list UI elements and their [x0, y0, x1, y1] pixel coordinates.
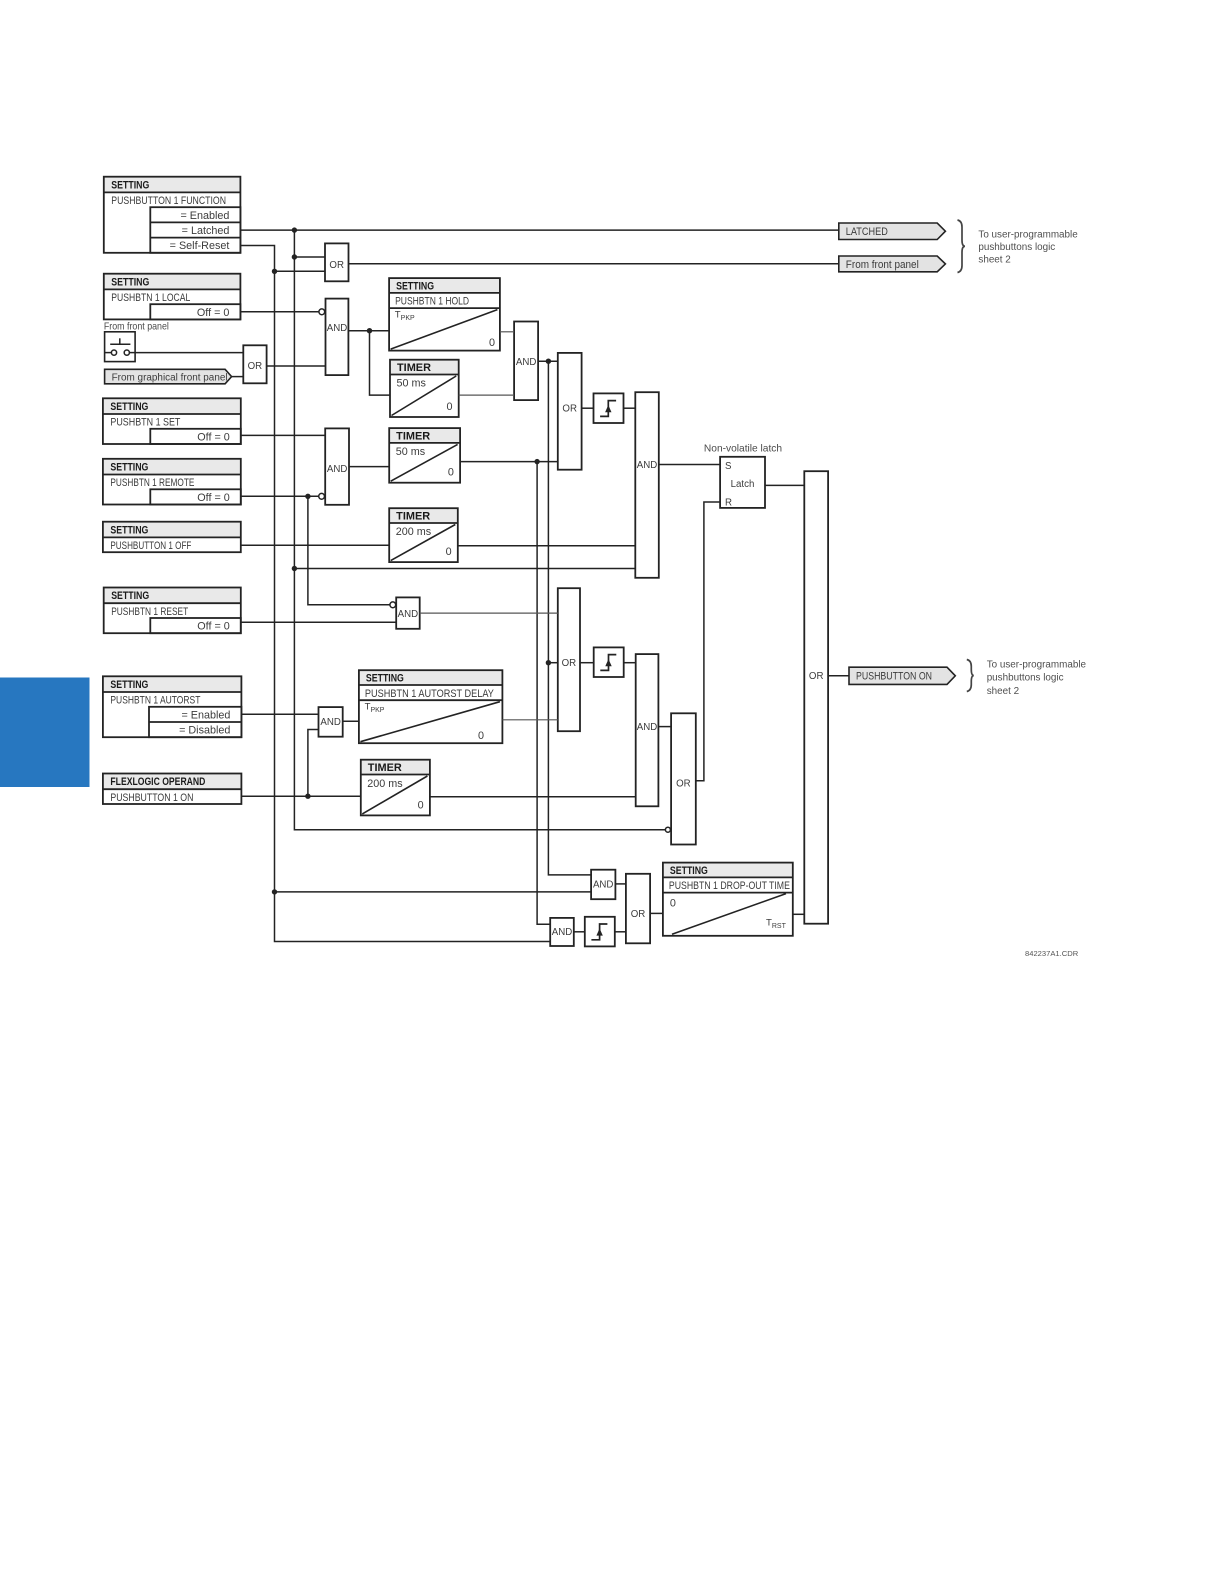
rising-edge detector ED3	[585, 917, 615, 947]
svg-text:50 ms: 50 ms	[396, 446, 426, 458]
svg-text:PUSHBUTTON 1 ON: PUSHBUTTON 1 ON	[110, 792, 193, 804]
svg-text:= Enabled: = Enabled	[180, 210, 229, 222]
svg-text:LATCHED: LATCHED	[846, 226, 888, 238]
timer 200 ms #1	[389, 508, 458, 562]
pushbutton contact symbol (front panel)	[104, 322, 169, 362]
svg-text:PUSHBTN 1 RESET: PUSHBTN 1 RESET	[111, 606, 188, 618]
wire: AND1 output to HOLD timer and 50ms timer	[348, 331, 390, 395]
svg-text:842237A1.CDR: 842237A1.CDR	[1025, 949, 1079, 958]
svg-text:Off = 0: Off = 0	[197, 431, 230, 443]
svg-text:SETTING: SETTING	[110, 462, 148, 474]
svg-text:Latch: Latch	[731, 479, 755, 490]
svg-text:200 ms: 200 ms	[367, 778, 403, 790]
wire: AND4 output to 50ms timer 2	[349, 466, 389, 468]
or-gate OR1 (latched/self-reset)	[325, 243, 349, 281]
wire: OR4 output to PUSHBUTTON ON tag	[828, 675, 849, 677]
svg-text:50 ms: 50 ms	[397, 378, 427, 390]
svg-text:0: 0	[446, 546, 452, 558]
svg-text:sheet 2: sheet 2	[987, 686, 1019, 697]
svg-text:PUSHBTN 1 AUTORST: PUSHBTN 1 AUTORST	[110, 695, 200, 707]
setting box PUSHBUTTON 1 FUNCTION	[104, 177, 241, 253]
brace and note: to user-programmable pushbuttons logic sheet 2 (middle)	[967, 660, 1087, 697]
svg-text:To user-programmable: To user-programmable	[987, 660, 1087, 671]
svg-text:PUSHBUTTON ON: PUSHBUTTON ON	[856, 671, 932, 683]
svg-text:From front panel: From front panel	[104, 322, 169, 333]
svg-text:SETTING: SETTING	[110, 401, 148, 413]
wire: AND9 output to ED3	[574, 931, 585, 933]
output tag PUSHBUTTON ON	[849, 667, 955, 684]
timer 200 ms #2	[361, 760, 430, 816]
svg-text:= Latched: = Latched	[182, 225, 230, 237]
svg-text:SETTING: SETTING	[111, 179, 149, 191]
svg-text:pushbuttons logic: pushbuttons logic	[978, 242, 1055, 253]
wire: OR3 to edge detector ED1	[582, 407, 594, 409]
wire: PUSHBTN 1 RESET Off to AND5	[241, 621, 396, 623]
svg-text:AND: AND	[398, 609, 418, 620]
wire: AND3 output to latch S input	[659, 464, 720, 466]
svg-text:R: R	[725, 498, 732, 509]
svg-text:SETTING: SETTING	[110, 679, 148, 691]
svg-text:OR: OR	[676, 778, 691, 789]
and-gate AND9 (dropout release)	[550, 918, 574, 946]
wire: PUSHBUTTON 1 ON to 200ms timer 2	[241, 795, 360, 797]
svg-text:PUSHBTN 1 DROP-OUT TIME: PUSHBTN 1 DROP-OUT TIME	[669, 880, 790, 892]
wire: PUSHBTN 1 AUTORST Enabled to AND6	[241, 713, 318, 715]
and-gate AND5 (reset)	[396, 597, 420, 628]
inversion bubbles	[319, 309, 671, 832]
svg-text:TIMER: TIMER	[396, 430, 430, 442]
svg-text:PUSHBTN 1 REMOTE: PUSHBTN 1 REMOTE	[110, 477, 194, 489]
and-gate AND2 (hold)	[514, 322, 538, 401]
svg-text:OR: OR	[562, 658, 577, 669]
svg-text:0: 0	[418, 800, 424, 812]
flexlogic operand box PUSHBUTTON 1 ON	[103, 774, 242, 805]
setting box PUSHBTN 1 REMOTE	[103, 459, 241, 505]
svg-text:PUSHBTN 1 LOCAL: PUSHBTN 1 LOCAL	[111, 292, 190, 304]
svg-text:0: 0	[448, 467, 454, 479]
svg-text:PUSHBTN 1 SET: PUSHBTN 1 SET	[110, 417, 180, 429]
wire: 50ms timer 2 output bus x537 to OR3 and AND9	[460, 462, 558, 925]
wire: AND6 output to AUTORST DELAY timer	[343, 720, 359, 722]
svg-text:TIMER: TIMER	[396, 510, 430, 522]
svg-text:To user-programmable: To user-programmable	[978, 229, 1078, 240]
svg-text:sheet 2: sheet 2	[978, 255, 1010, 266]
svg-text:AND: AND	[552, 927, 572, 938]
svg-text:TIMER: TIMER	[397, 362, 431, 374]
setting box PUSHBUTTON 1 OFF	[103, 522, 241, 553]
svg-text:OR: OR	[562, 404, 577, 415]
drawing number 842237A1.CDR	[1025, 949, 1079, 958]
blue sidebar block	[0, 678, 90, 788]
svg-text:0: 0	[478, 730, 484, 742]
wire: graphical front panel tag to OR2	[232, 376, 244, 378]
input tag From graphical front panel	[105, 369, 232, 384]
svg-text:= Self-Reset: = Self-Reset	[170, 240, 230, 252]
wire: AND8 output to OR6	[615, 883, 626, 885]
svg-text:From front panel: From front panel	[846, 259, 919, 271]
svg-text:OR: OR	[329, 260, 344, 271]
svg-text:AND: AND	[593, 880, 613, 891]
and-gate AND3 (set latch)	[635, 392, 659, 578]
wire: PUSHBUTTON 1 ON junction up to AND6	[308, 730, 319, 797]
wire: ED1 to AND3	[624, 407, 636, 409]
rising-edge detector ED1	[594, 393, 624, 423]
wire: latched bus x294 down to OR5 inverted input	[294, 230, 665, 830]
svg-text:FLEXLOGIC OPERAND: FLEXLOGIC OPERAND	[110, 776, 205, 788]
wire: AND5 output to OR7	[420, 612, 558, 614]
or-gate OR4 (output)	[804, 471, 828, 924]
wire: 50ms timer output to AND2	[459, 394, 514, 396]
svg-text:AND: AND	[327, 323, 347, 334]
svg-text:0: 0	[489, 337, 495, 349]
svg-text:PUSHBUTTON 1 FUNCTION: PUSHBUTTON 1 FUNCTION	[111, 195, 226, 207]
svg-text:OR: OR	[631, 909, 646, 920]
svg-text:SETTING: SETTING	[396, 280, 434, 292]
wire: latch output to OR4	[765, 484, 804, 486]
junction dots	[272, 227, 551, 894]
svg-text:PUSHBTN 1 AUTORST DELAY: PUSHBTN 1 AUTORST DELAY	[365, 688, 494, 700]
svg-text:pushbuttons logic: pushbuttons logic	[987, 673, 1064, 684]
svg-text:200 ms: 200 ms	[396, 526, 432, 538]
setting box PUSHBTN 1 RESET	[104, 588, 241, 634]
svg-text:AND: AND	[327, 464, 347, 475]
timer SETTING PUSHBTN 1 AUTORST DELAY	[359, 670, 503, 743]
svg-text:Off = 0: Off = 0	[197, 307, 230, 319]
rising-edge detector ED2	[594, 647, 624, 677]
wire: bus294 to AND3 bottom input	[294, 568, 635, 570]
wire: OR2 output to AND1	[267, 365, 326, 367]
output tag From front panel	[839, 256, 946, 272]
wire: = Self-Reset output down bus x275 to AND9	[240, 246, 550, 942]
timer SETTING PUSHBTN 1 HOLD	[389, 278, 500, 351]
timer 50 ms #2	[389, 428, 460, 483]
svg-text:SETTING: SETTING	[366, 672, 404, 684]
wire: 200ms timer 2 output to AND7	[430, 796, 636, 798]
and-gate AND6 (autorst enable)	[319, 707, 343, 737]
or-gate OR3 (set path)	[558, 353, 582, 470]
wire: PUSHBTN 1 SET Off to AND4	[241, 434, 325, 436]
wire: HOLD timer output to AND2	[500, 331, 514, 333]
or-gate OR2 (front panel)	[243, 345, 266, 383]
wire: = Latched output to LATCHED tag	[240, 229, 838, 231]
svg-text:Non-volatile latch: Non-volatile latch	[704, 444, 782, 455]
wire: ED2 to AND7	[624, 662, 636, 664]
wire: OR7 to edge detector ED2	[580, 662, 594, 664]
timer 50 ms #1	[390, 360, 459, 417]
wire: OR5 output up to latch R input	[696, 502, 720, 781]
svg-text:AND: AND	[320, 717, 340, 728]
svg-text:PUSHBUTTON 1 OFF: PUSHBUTTON 1 OFF	[110, 540, 191, 552]
or-gate OR5 (reset latch)	[671, 713, 696, 844]
wire: DROP-OUT timer output to OR4	[793, 913, 805, 915]
setting box PUSHBTN 1 AUTORST	[103, 676, 242, 737]
output tag LATCHED	[839, 223, 946, 240]
wire: 200ms timer output to AND3	[458, 545, 636, 547]
and-gate AND7 (autoreset)	[636, 654, 659, 806]
svg-text:AND: AND	[637, 460, 657, 471]
brace and note: to user-programmable pushbuttons logic sheet 2 (top)	[958, 220, 1079, 273]
wire: bus294 to OR1 top input	[294, 256, 325, 258]
svg-text:= Disabled: = Disabled	[179, 725, 230, 737]
svg-text:= Enabled: = Enabled	[181, 709, 230, 721]
setting box PUSHBTN 1 SET	[103, 398, 241, 444]
or-gate OR7 (reset path)	[558, 588, 580, 731]
svg-text:SETTING: SETTING	[110, 524, 148, 536]
or-gate OR6 (dropout)	[626, 874, 650, 944]
wire: PUSHBUTTON 1 OFF to 200ms timer	[241, 544, 389, 546]
wire: PUSHBTN 1 REMOTE Off to AND4 inverted input and AND5	[241, 496, 390, 605]
wire: AND2 output bus x548 to OR3, OR7, AND8	[538, 361, 591, 875]
svg-text:0: 0	[670, 898, 676, 910]
wire: ED3 output to OR6	[615, 931, 626, 933]
setting box PUSHBTN 1 LOCAL	[104, 274, 241, 320]
and-gate AND1 (local enable)	[326, 299, 349, 376]
wire: bus275 to AND8 bottom input	[275, 891, 592, 893]
svg-text:0: 0	[446, 401, 452, 413]
svg-text:AND: AND	[637, 722, 657, 733]
wire: PUSHBTN 1 LOCAL Off to AND1 inverted input	[240, 311, 318, 313]
svg-text:From graphical front panel: From graphical front panel	[112, 373, 228, 384]
svg-text:S: S	[725, 461, 732, 472]
wire: OR1 output to From front panel tag	[349, 263, 839, 265]
svg-text:OR: OR	[248, 361, 263, 372]
svg-text:Off = 0: Off = 0	[197, 621, 230, 633]
and-gate AND4 (set/remote)	[325, 428, 349, 504]
svg-text:SETTING: SETTING	[670, 865, 708, 877]
svg-text:Off = 0: Off = 0	[197, 492, 230, 504]
and-gate AND8 (dropout set)	[591, 870, 615, 900]
svg-text:PUSHBTN 1 HOLD: PUSHBTN 1 HOLD	[395, 296, 469, 308]
svg-text:TIMER: TIMER	[368, 762, 402, 774]
wire: OR6 output to DROP-OUT timer	[650, 912, 663, 914]
svg-text:OR: OR	[809, 671, 824, 682]
wire: bus275 to OR1 bottom input	[275, 270, 326, 272]
non-volatile latch	[704, 444, 782, 509]
wire: pushbutton symbol to OR2	[135, 352, 243, 354]
svg-text:SETTING: SETTING	[111, 590, 149, 602]
wire: AUTORST DELAY output to OR7	[502, 719, 557, 721]
svg-text:SETTING: SETTING	[111, 276, 149, 288]
wire: AND7 output to OR5	[658, 726, 671, 728]
timer SETTING PUSHBTN 1 DROP-OUT TIME	[663, 863, 793, 936]
svg-text:AND: AND	[516, 357, 536, 368]
